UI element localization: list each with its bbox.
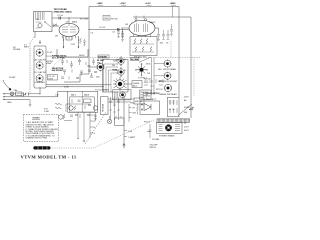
svg-text:AC BAL: AC BAL bbox=[131, 58, 140, 61]
value label R3 bbox=[55, 36, 58, 38]
cathode resistor box under V2 bbox=[130, 37, 157, 56]
svg-text:C5: C5 bbox=[91, 33, 95, 35]
meter amp tall box bbox=[101, 97, 109, 115]
pilot diagonal wire bbox=[178, 104, 192, 116]
svg-text:900K: 900K bbox=[112, 70, 117, 72]
label under rails bbox=[95, 89, 109, 92]
bridge hang wire 1 bbox=[77, 112, 78, 139]
svg-text:RANGE SW REAR: RANGE SW REAR bbox=[159, 93, 177, 96]
dashed pointer diagonal bbox=[85, 112, 106, 144]
svg-text:117V: 117V bbox=[184, 127, 189, 129]
svg-text:30V: 30V bbox=[132, 113, 136, 115]
svg-text:12AU7: 12AU7 bbox=[149, 21, 156, 24]
component box S1 common bbox=[48, 75, 58, 81]
divider box bbox=[103, 60, 129, 93]
jack J1 bbox=[10, 92, 14, 96]
arrow into shield left bbox=[63, 47, 65, 49]
bridge component box bbox=[84, 99, 92, 103]
svg-text:600V: 600V bbox=[48, 78, 53, 80]
svg-text:SW FRONT: SW FRONT bbox=[52, 70, 64, 72]
battery box bbox=[115, 118, 125, 125]
tube V1 grid bbox=[62, 24, 76, 32]
note small left bbox=[46, 56, 53, 58]
label under transformer bbox=[159, 135, 175, 138]
svg-text:SHLD: SHLD bbox=[79, 55, 85, 57]
divider text box bbox=[140, 90, 151, 100]
svg-text:10K: 10K bbox=[160, 43, 164, 45]
svg-text:AC: AC bbox=[184, 99, 187, 102]
filter resistors bbox=[169, 100, 177, 113]
resistor R10 bbox=[142, 47, 144, 52]
bridge labels bbox=[71, 94, 90, 97]
svg-text:POWER TRANS: POWER TRANS bbox=[159, 135, 175, 138]
svg-text:1M: 1M bbox=[147, 73, 150, 75]
top voltage label 1 bbox=[97, 3, 104, 5]
meter resistor bbox=[137, 106, 139, 111]
value label C12 bbox=[55, 95, 60, 97]
value label grid bbox=[125, 24, 128, 26]
power label row bbox=[143, 93, 160, 97]
value label R4 bbox=[71, 44, 76, 46]
wire V1 cathode left bbox=[63, 36, 65, 48]
label box AC balance bbox=[131, 57, 140, 61]
V2 heater rail bbox=[133, 16, 191, 18]
svg-text:CAL: CAL bbox=[14, 89, 19, 92]
center lower resistors bbox=[109, 101, 119, 112]
wire plate rail bbox=[89, 6, 179, 8]
svg-text:6.8M: 6.8M bbox=[64, 87, 69, 89]
bridge hang wire 2 bbox=[83, 112, 85, 142]
resistor R7 bbox=[140, 39, 142, 44]
svg-text:R2 3.3M: R2 3.3M bbox=[80, 19, 88, 21]
svg-text:1M: 1M bbox=[55, 36, 58, 38]
NOTES box bbox=[24, 115, 59, 142]
label under S4 bbox=[138, 78, 147, 80]
svg-text:SHIELDED CABLE: SHIELDED CABLE bbox=[54, 10, 73, 13]
meter wires bbox=[108, 99, 138, 115]
resistor R6 bbox=[134, 39, 136, 44]
svg-text:C: C bbox=[94, 115, 96, 117]
ground symbol bottom bbox=[123, 144, 126, 149]
label S1a bbox=[35, 52, 54, 61]
svg-text:115V: 115V bbox=[184, 97, 189, 99]
V1 pin circles bbox=[63, 29, 90, 41]
chassis dotted curve bbox=[51, 58, 63, 71]
svg-text:C4 .05: C4 .05 bbox=[99, 27, 106, 29]
rotary switch S2 input wafer bbox=[96, 63, 104, 72]
svg-text:SEL. SW S2 FRONT: SEL. SW S2 FRONT bbox=[158, 81, 178, 83]
svg-text:C12: C12 bbox=[55, 95, 60, 97]
svg-text:TO S2 WAFER: TO S2 WAFER bbox=[95, 89, 109, 92]
svg-text:G: G bbox=[94, 133, 96, 135]
label S3b bbox=[158, 81, 178, 83]
label V2 bbox=[149, 21, 156, 24]
zigzag resistor row bbox=[55, 103, 62, 109]
bridge outer box bbox=[68, 91, 98, 112]
svg-text:1.5V: 1.5V bbox=[128, 131, 133, 133]
transformer marks bbox=[159, 125, 181, 131]
shield dashed diagonal bbox=[30, 37, 34, 43]
label S1c bbox=[35, 81, 46, 84]
svg-text:2.2K: 2.2K bbox=[71, 44, 76, 46]
pilot lamp bbox=[165, 124, 172, 131]
svg-text:SW: SW bbox=[184, 112, 187, 114]
rotary switch S1c bbox=[36, 74, 43, 82]
rotary switch S3a bbox=[164, 59, 172, 67]
rotary switch S4 star bbox=[135, 63, 147, 76]
diode CR1 bbox=[189, 107, 194, 110]
svg-text:T1: T1 bbox=[184, 123, 187, 125]
svg-text:SEL. SW S2 REAR: SEL. SW S2 REAR bbox=[158, 68, 176, 71]
resistor R2 bbox=[80, 38, 86, 46]
filter box bbox=[168, 97, 180, 117]
rotary switch S2b bbox=[117, 67, 126, 76]
scale bar bbox=[33, 146, 50, 149]
ohms box bbox=[132, 81, 142, 88]
top voltage label 3 bbox=[145, 3, 152, 5]
svg-text:R: R bbox=[94, 121, 96, 123]
input arrow 2 bbox=[3, 92, 68, 98]
wire heater bbox=[66, 37, 72, 40]
pilot wiring bbox=[144, 122, 160, 142]
svg-text:PROBE: PROBE bbox=[13, 49, 21, 51]
hang wire ticks bbox=[90, 115, 93, 133]
shield trough bbox=[57, 49, 88, 57]
label dc ac bbox=[9, 76, 16, 79]
label shielded cable bbox=[24, 44, 29, 48]
wire wafer to ohms box bbox=[127, 83, 133, 85]
precision resistor box bbox=[113, 90, 132, 100]
svg-text:+170V: +170V bbox=[120, 3, 127, 5]
svg-text:9M: 9M bbox=[112, 65, 115, 67]
capacitor C8 bbox=[121, 28, 124, 38]
label rect bbox=[146, 99, 157, 101]
label S2a bbox=[113, 60, 118, 63]
NOTES lines bbox=[26, 121, 59, 139]
wire coupling bbox=[89, 29, 129, 31]
value label 6.8M bbox=[64, 87, 69, 89]
svg-text:FUSE: FUSE bbox=[184, 107, 190, 109]
ground bus ticks bbox=[124, 131, 127, 137]
svg-text:OHMS ADJ: OHMS ADJ bbox=[35, 81, 46, 84]
svg-text:60CY: 60CY bbox=[184, 130, 190, 132]
svg-text:GND: GND bbox=[7, 102, 12, 104]
bridge tube right bbox=[93, 106, 97, 110]
selector note text 2 bbox=[46, 61, 54, 65]
plate load box bbox=[103, 16, 119, 21]
V2 pins bbox=[134, 34, 151, 37]
value label 9M bbox=[112, 65, 115, 67]
svg-text:VTVM MODEL TM - 11: VTVM MODEL TM - 11 bbox=[21, 155, 77, 160]
svg-text:TO V1: TO V1 bbox=[46, 56, 53, 58]
svg-text:R9 47K: R9 47K bbox=[111, 19, 119, 21]
rotary switch S1a bbox=[36, 49, 43, 57]
lamp I1 bbox=[107, 119, 112, 124]
label gnd bbox=[7, 102, 12, 104]
right B+ bus bbox=[190, 17, 192, 118]
tube V1 envelope bbox=[59, 17, 79, 36]
label V1 bbox=[66, 19, 88, 24]
bridge tube left bbox=[69, 106, 73, 110]
trimmer caps field bbox=[61, 58, 97, 80]
svg-text:470K: 470K bbox=[146, 64, 151, 66]
transformer labels bbox=[184, 123, 190, 132]
right label column bbox=[184, 97, 190, 115]
svg-text:117VAC: 117VAC bbox=[152, 138, 160, 141]
svg-text:+105V: +105V bbox=[97, 3, 104, 5]
value label R40 bbox=[131, 103, 136, 105]
rails from range switch bbox=[46, 84, 111, 86]
svg-text:MEG: MEG bbox=[24, 46, 29, 48]
svg-text:1M: 1M bbox=[36, 19, 39, 21]
bridge inner box bbox=[70, 97, 95, 112]
test probe box bbox=[34, 12, 53, 32]
rail 2 bbox=[46, 86, 104, 88]
wire probe cable bbox=[34, 32, 36, 39]
dense blob left of divider bbox=[97, 60, 104, 64]
chassis dotted bottom bbox=[50, 147, 95, 149]
wire V2 right bbox=[155, 28, 159, 30]
rotary switch S1b bbox=[36, 61, 43, 69]
input arrow 1 bbox=[3, 93, 16, 95]
svg-text:6AU6: 6AU6 bbox=[84, 94, 90, 97]
top voltage label 4 bbox=[170, 3, 177, 5]
rotary switch S2c large bbox=[113, 77, 127, 91]
nested divider wires bbox=[104, 64, 118, 92]
capacitor C5 bbox=[118, 28, 120, 31]
capacitor C6 to ground bbox=[121, 30, 124, 42]
resistor R5 bbox=[167, 30, 170, 39]
svg-text:V5 6X4: V5 6X4 bbox=[143, 95, 151, 97]
label on-off bbox=[150, 145, 159, 150]
svg-text:ADJ: ADJ bbox=[133, 84, 137, 87]
rotary switch S2d bbox=[120, 91, 126, 98]
capacitor C7 bbox=[117, 28, 129, 38]
svg-text:6AL5: 6AL5 bbox=[71, 94, 77, 97]
svg-text:6AU6: 6AU6 bbox=[72, 21, 78, 24]
svg-text:+6.3V: +6.3V bbox=[145, 3, 151, 5]
rectifier triangle bbox=[144, 104, 151, 111]
label shield bbox=[79, 55, 85, 57]
small tube V4 bbox=[59, 115, 63, 119]
value label C6b bbox=[112, 32, 116, 34]
NOTES title bbox=[32, 118, 40, 120]
tick labels bbox=[94, 115, 96, 135]
small mark right bbox=[147, 131, 150, 133]
value label R13 bbox=[160, 43, 164, 45]
selector dense label bbox=[52, 68, 64, 72]
svg-text:BRIDGE: BRIDGE bbox=[101, 104, 103, 113]
V2 internal bbox=[135, 23, 148, 32]
value label C5b bbox=[91, 33, 95, 35]
svg-text:+250V: +250V bbox=[170, 3, 177, 5]
input arrow 3 gnd bbox=[3, 99, 31, 101]
label TEST PROBE bbox=[54, 9, 73, 13]
bridge center wire bbox=[81, 91, 83, 112]
components below bridge bbox=[63, 114, 90, 121]
value label 900K bbox=[112, 70, 117, 72]
svg-text:SEL RECT: SEL RECT bbox=[146, 99, 157, 101]
wire S3a stub bbox=[154, 63, 164, 65]
V2 top caps bbox=[135, 16, 147, 21]
battery wire bbox=[110, 116, 122, 119]
bus drop x179 bbox=[178, 7, 180, 98]
label balance bbox=[134, 56, 147, 59]
transformer terminal bar bbox=[157, 119, 190, 122]
tall box label bbox=[101, 104, 103, 113]
capacitor C11 with ground bbox=[170, 24, 173, 36]
svg-text:AT 1.5V POS.: AT 1.5V POS. bbox=[52, 57, 65, 60]
AC verticals bbox=[152, 58, 155, 96]
svg-text:1M: 1M bbox=[125, 24, 128, 26]
svg-text:VIEW: VIEW bbox=[46, 63, 51, 65]
svg-text:DC/AC: DC/AC bbox=[9, 76, 16, 79]
bus stub x173 bbox=[172, 7, 174, 18]
resistor label right bbox=[44, 109, 49, 113]
shield dashed vertical bbox=[29, 43, 31, 93]
wire probe lower bbox=[52, 24, 59, 27]
probe tube bbox=[38, 21, 51, 27]
capacitor C10 bbox=[162, 30, 165, 39]
label cal bbox=[13, 47, 21, 51]
capacitor C9 bbox=[157, 30, 160, 40]
svg-text:DC CAL 2M: DC CAL 2M bbox=[35, 71, 46, 74]
rotary switch S3c bbox=[164, 84, 172, 93]
svg-text:DIVIDER: DIVIDER bbox=[99, 57, 108, 59]
svg-text:C BATT: C BATT bbox=[128, 136, 136, 139]
bus tick labels bbox=[128, 131, 136, 139]
chassis dotted bottom diagonal bbox=[95, 120, 155, 148]
transformer box bbox=[157, 123, 183, 134]
svg-text:3.3M: 3.3M bbox=[44, 111, 49, 113]
label S2b bbox=[113, 70, 118, 72]
dotted AC boundary bbox=[170, 41, 172, 58]
title bbox=[21, 155, 77, 160]
rotary switch S3b bbox=[164, 72, 172, 80]
rectifier box bbox=[140, 101, 160, 115]
meter box bbox=[134, 98, 144, 104]
probe resistor R1 value bbox=[36, 19, 39, 21]
value label R22 bbox=[146, 64, 151, 66]
component block left of bus bbox=[66, 104, 90, 112]
resistor cluster right of ohms bbox=[144, 79, 163, 86]
wires in cathode box bbox=[132, 44, 154, 52]
label S3c bbox=[159, 93, 177, 96]
resistor chain in probe bbox=[36, 12, 45, 28]
arrow into shield right bbox=[78, 47, 80, 49]
resistor R9 bbox=[135, 47, 137, 52]
tube V2 envelope bbox=[129, 20, 155, 35]
svg-text:AC CAL 2M: AC CAL 2M bbox=[35, 58, 46, 61]
left input probe curve bbox=[3, 80, 9, 88]
selector note text bbox=[52, 54, 67, 59]
ground bus bbox=[123, 96, 125, 145]
range switch wafer box bbox=[34, 46, 46, 88]
svg-text:S2C: S2C bbox=[96, 77, 101, 79]
svg-text:.05: .05 bbox=[166, 43, 170, 45]
probe tip blob bbox=[9, 88, 19, 92]
staircase wire bbox=[64, 67, 102, 82]
wire jack up to rail bbox=[39, 87, 40, 95]
label C4 bbox=[99, 27, 106, 29]
dotted AC boundary right bbox=[193, 58, 195, 97]
label S1b bbox=[35, 71, 46, 74]
svg-text:.02: .02 bbox=[112, 32, 116, 34]
center lower verticals bbox=[111, 97, 119, 120]
value label S2C bbox=[96, 77, 101, 79]
gnd stub bbox=[29, 100, 32, 107]
svg-text:CHASSIS WITH VTVM.: CHASSIS WITH VTVM. bbox=[26, 137, 48, 140]
svg-text:METER: METER bbox=[135, 101, 143, 103]
trimmer C2 bbox=[22, 92, 40, 96]
input resistor box bbox=[16, 92, 22, 96]
labels right of ohms bbox=[144, 79, 164, 92]
wire V1 cathode right bbox=[78, 36, 80, 48]
chassis dotted horizontal bbox=[63, 57, 200, 59]
svg-text:SW S5: SW S5 bbox=[150, 147, 157, 149]
svg-text:3V: 3V bbox=[132, 108, 135, 110]
cap under bridge right bbox=[94, 112, 97, 121]
wire diagonal to rail bbox=[139, 57, 151, 63]
rectifier pins bbox=[141, 104, 142, 110]
capacitor C1 bbox=[57, 15, 64, 20]
divider bus x129 bbox=[129, 104, 137, 122]
cal arrow bbox=[39, 40, 40, 44]
bridge hang wire 3 bbox=[89, 112, 91, 138]
top voltage label 2 bbox=[120, 3, 127, 5]
label S3a bbox=[158, 68, 176, 71]
rotary switch S2a bbox=[117, 57, 126, 66]
resistor R11 bbox=[150, 47, 152, 52]
resistor R8 bbox=[146, 39, 148, 44]
value label C13 bbox=[166, 43, 170, 45]
svg-text:R21 10: R21 10 bbox=[156, 89, 164, 91]
bridge resistor bbox=[72, 99, 91, 110]
svg-text:C1 .05: C1 .05 bbox=[57, 15, 64, 17]
wire S3b stub bbox=[154, 75, 164, 77]
svg-text:TO V1: TO V1 bbox=[47, 52, 54, 54]
wire probe to grid bbox=[52, 17, 89, 19]
input divider label box bbox=[98, 55, 109, 59]
wire grid rail vertical bbox=[88, 7, 90, 75]
value label R23 bbox=[147, 73, 150, 75]
svg-text:R20 2K: R20 2K bbox=[144, 79, 152, 81]
